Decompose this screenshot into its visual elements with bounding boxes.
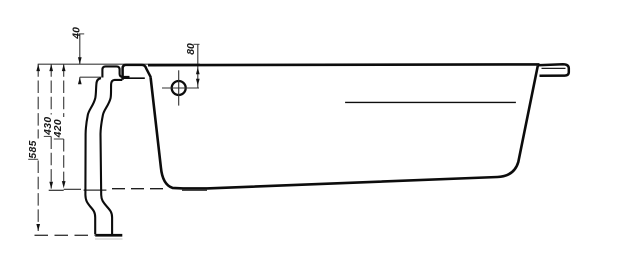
tub rim left end (far hump)	[123, 65, 151, 80]
dimension line 585	[37, 64, 39, 231]
dashed hidden bottom line	[112, 188, 166, 190]
extension line at 430 bottom level	[49, 189, 64, 191]
585 down arrow	[36, 224, 40, 231]
reference line 40 below rim	[80, 76, 101, 78]
40 outside arrows	[78, 57, 82, 64]
circle crosshair horizontal	[162, 87, 199, 89]
svg-text:585: 585	[28, 140, 39, 158]
rim top long edge	[148, 63, 540, 66]
80 inside arrows	[196, 67, 200, 74]
extension line at 420 bottom level	[64, 188, 81, 190]
circle crosshair vertical	[178, 70, 180, 105]
apron outer contour	[85, 78, 101, 234]
lip inner thin line	[542, 67, 566, 69]
foot base bar	[95, 234, 122, 237]
apron inner contour	[101, 80, 123, 234]
top reference line at rim level	[38, 63, 200, 65]
dashed floor line at 585 level	[35, 234, 96, 236]
dimension line 40	[79, 34, 81, 84]
faint shadow line under foot	[95, 238, 123, 240]
dimension line 420	[63, 64, 65, 188]
rim inner edge short line	[123, 77, 144, 79]
water level line	[345, 101, 516, 103]
tub shell outline	[151, 66, 538, 189]
rim end profile hump (near side)	[102, 66, 129, 77]
arrowheads	[36, 57, 199, 231]
up arrows at rim ref line	[36, 64, 40, 71]
dimension line 80	[197, 44, 199, 88]
overflow hole circle	[172, 81, 186, 95]
thin line under tub bottom	[182, 189, 207, 191]
svg-text:40: 40	[72, 27, 83, 40]
430 down arrow	[49, 182, 53, 189]
dimension line 430	[50, 64, 52, 188]
right rim lip	[538, 64, 569, 76]
hidden bottom line through apron	[84, 189, 107, 191]
svg-text:420: 420	[53, 119, 64, 138]
420 down arrow	[62, 181, 66, 188]
